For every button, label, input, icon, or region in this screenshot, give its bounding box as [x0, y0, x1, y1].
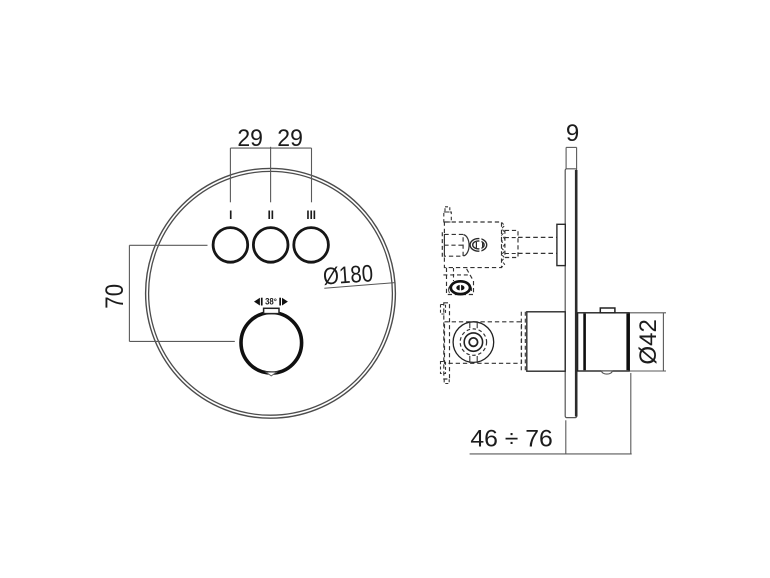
svg-text:70: 70: [101, 284, 129, 309]
knob bottom notch (side): [602, 371, 613, 374]
46÷76 extension right (knob face): [630, 373, 632, 454]
Ø42 extension line bottom: [630, 370, 667, 372]
hex nut flat line upper: [505, 237, 518, 239]
Ø42 dimension line: [662, 313, 664, 371]
upper valve top fitting: [444, 212, 452, 222]
extension line right (button III axis): [311, 148, 313, 202]
dimension 9 line: [566, 146, 577, 148]
knob base ring: [583, 314, 586, 371]
lower bracket outer rim arc: [449, 282, 472, 293]
dimension line 29/29: [230, 147, 311, 149]
Ø180 leader line: [324, 283, 395, 289]
svg-text:Ø180: Ø180: [322, 260, 374, 290]
svg-text:III: III: [306, 210, 316, 222]
temperature knob circle: [241, 313, 302, 374]
bracket top lug: [441, 305, 446, 315]
upper valve left port cap arc: [463, 235, 469, 256]
lower wall bracket (dashed): [444, 303, 450, 379]
valve stem lower edge (dashed): [518, 252, 557, 254]
upper valve body (hidden, dashed): [444, 222, 501, 268]
Ø42 extension line top: [630, 312, 667, 314]
stem wall flange (solid): [557, 224, 565, 265]
38° left arrow: [254, 298, 260, 306]
svg-text:29: 29: [277, 125, 303, 152]
cartridge flat top-left line: [469, 322, 471, 328]
knob bottom safety notch: [266, 372, 277, 376]
cartridge centre circle: [469, 338, 477, 346]
lower bracket ring: [451, 281, 470, 294]
button I circle: [213, 228, 248, 263]
dimension 70 bottom extension to knob: [129, 340, 234, 342]
upper valve left port mid line: [444, 244, 463, 246]
upper valve screw slot gap: [479, 237, 481, 253]
cartridge housing (solid): [527, 312, 565, 371]
cartridge dashed circle: [460, 329, 486, 355]
lower bracket channel line: [453, 268, 455, 281]
dimension 9 extension right: [576, 147, 578, 169]
upper valve top fitting cap: [445, 207, 450, 212]
dimension 46÷76 line: [470, 453, 632, 455]
svg-text:II: II: [268, 210, 274, 222]
svg-text:29: 29: [237, 125, 263, 152]
upper valve screw slot right edge: [482, 242, 484, 248]
cartridge flat bottom-left line: [469, 356, 471, 363]
svg-text:46 ÷ 76: 46 ÷ 76: [470, 425, 553, 452]
upper valve screw slot left edge: [475, 242, 477, 248]
svg-text:I: I: [229, 210, 232, 222]
upper valve left back edge (dashed): [441, 232, 443, 259]
thermostatic valve body (hidden, dashed): [445, 322, 522, 364]
46÷76 extension left (plate): [565, 420, 567, 454]
38° right arrow bar: [279, 298, 281, 306]
extension line centre (button II axis): [270, 147, 272, 203]
extension line left (button I axis): [229, 148, 231, 202]
lower bracket shelf line: [443, 274, 470, 276]
dimension 70 vertical line: [128, 245, 130, 341]
wall plate (side): [565, 169, 577, 418]
dimension 9 extension left: [565, 147, 567, 169]
lower bracket ring core: [456, 285, 464, 291]
upper valve hex nut (dashed): [505, 230, 518, 257]
button II circle: [253, 228, 288, 263]
upper valve lower bracket (dashed): [447, 268, 474, 295]
cartridge flat top-right line: [476, 322, 478, 328]
valve stem upper edge (dashed): [518, 236, 557, 238]
clamp dashed line left: [520, 312, 522, 371]
svg-text:9: 9: [566, 120, 579, 147]
knob face thick edge: [626, 314, 629, 371]
knob top tab (side): [600, 308, 615, 313]
cartridge middle circle: [464, 333, 482, 351]
svg-text:38°: 38°: [265, 297, 277, 307]
svg-text:Ø42: Ø42: [635, 319, 662, 365]
lower wall bracket foot: [444, 379, 449, 384]
wall plate front face thick edge: [575, 170, 578, 417]
upper valve left port (dashed): [444, 234, 463, 256]
knob cylinder (side view): [578, 313, 630, 371]
lower bracket core slot: [459, 285, 461, 291]
cartridge flat bottom-right line: [476, 356, 478, 363]
upper valve screw boss outer ellipse: [470, 239, 487, 252]
38° left arrow bar: [261, 298, 263, 306]
upper valve threaded edge: [502, 222, 505, 267]
upper valve screw boss inner ellipse: [473, 241, 484, 249]
cartridge outer circle: [453, 322, 494, 363]
front plate outer circle (Ø180): [146, 168, 396, 418]
knob top tab: [264, 308, 279, 313]
button III circle: [294, 228, 329, 263]
bracket bottom lug: [441, 362, 446, 374]
38° right arrow: [282, 298, 288, 306]
dimension 70 top extension to button I: [129, 244, 207, 246]
hex nut flat line lower: [505, 253, 518, 255]
front plate inner rim circle: [149, 171, 393, 415]
clamp dashed line right: [524, 312, 526, 371]
